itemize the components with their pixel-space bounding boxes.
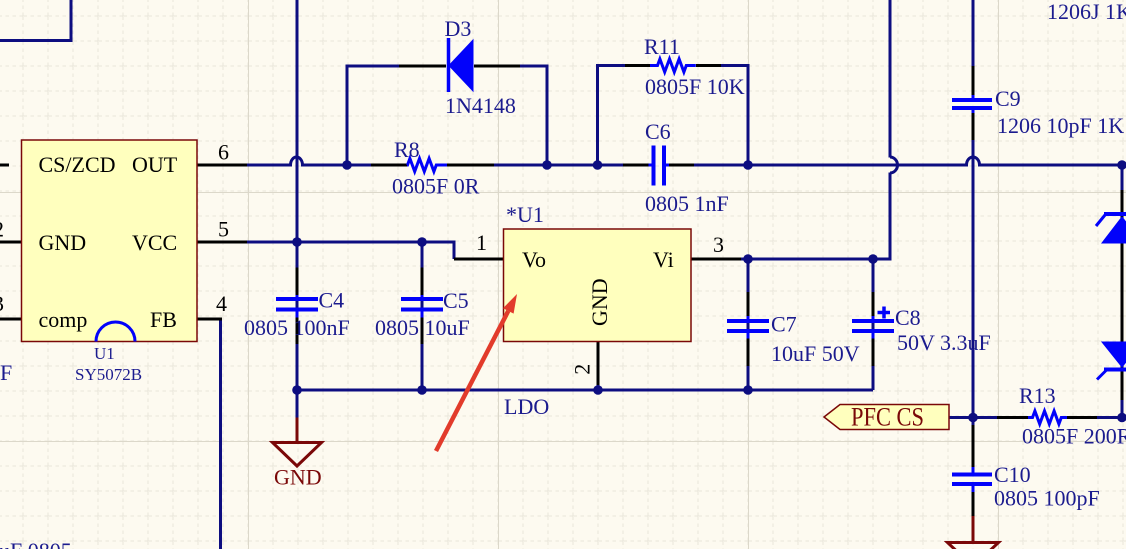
svg-text:6: 6 [218,140,229,165]
svg-text:*U1: *U1 [506,202,544,227]
svg-text:R11: R11 [644,34,680,59]
capacitor C8 plus sign [878,307,891,319]
resistor R8 pins [371,164,494,167]
svg-text:1206J 1K: 1206J 1K [1047,0,1126,24]
svg-text:3: 3 [0,291,4,316]
wire OUT net y=165 (with hops at x=297 and x=973) [247,157,371,165]
capacitor C5 [421,295,424,318]
capacitor C7 [747,316,750,339]
op-amp U1 SY5072B body [22,140,198,342]
svg-text:CS/ZCD: CS/ZCD [39,152,116,177]
capacitor C6 [649,164,670,167]
zener diode lower [1102,342,1126,367]
wire C9/C10 column x=973 [972,0,975,66]
wire Vi net y=259 with vertical riser x=890 (hop over y=165) [741,173,890,260]
regulator U1 LDO pin1 wire [454,258,503,261]
wire VCC net y=242 [247,242,454,259]
junction node dots [342,160,352,170]
svg-text:5: 5 [218,217,229,242]
wire ground rail y=390 [297,389,873,392]
capacitor C4 [296,295,299,318]
capacitor C9 pins [972,66,975,140]
svg-text:GND: GND [39,230,87,255]
port PFC CS banner [824,405,949,430]
svg-text:Vi: Vi [653,247,674,272]
wire top-left corner [0,0,71,41]
wire FB net [219,319,222,549]
wire D3 branch [347,66,399,165]
svg-text:C8: C8 [895,305,921,330]
capacitor C8 [872,316,875,339]
svg-text:comp: comp [39,307,88,332]
svg-text:F: F [0,360,12,385]
capacitor C6 pins [623,164,694,167]
wire pin2 stub [597,383,600,390]
svg-text:10uF 50V: 10uF 50V [771,341,860,366]
wire C5 column x=422 [421,242,424,390]
regulator U1 LDO pin3 wire [691,258,741,261]
regulator U1 LDO body [504,229,692,342]
resistor R13 [1028,411,1067,424]
wire PFC CS net y=417.5 [949,416,997,419]
resistor R8 [407,159,447,172]
svg-text:R8: R8 [394,137,420,162]
IC U1 pin 6 wire [197,164,247,167]
diode D3 [447,38,451,92]
resistor R11 pins [625,64,721,67]
capacitor C10 pins [972,425,975,517]
svg-text:U1: U1 [94,344,115,363]
IC U1 pin stubs left edge [0,164,9,167]
svg-text:C10: C10 [994,462,1031,487]
diode D3 pins [399,65,520,68]
ground symbol bottom (C10) [972,516,975,543]
U1 bottom arc [96,322,135,342]
ground symbol left [296,390,299,418]
svg-text:GND: GND [587,278,612,326]
svg-text:0805 100nF: 0805 100nF [244,315,350,340]
svg-text:1: 1 [476,230,487,255]
IC U1 pin 5 wire [197,241,247,244]
svg-text:2: 2 [0,217,4,242]
svg-text:D3: D3 [445,16,472,41]
svg-text:Vo: Vo [522,247,546,272]
svg-text:C9: C9 [995,86,1021,111]
svg-text:GND: GND [274,465,322,490]
red annotation arrow [436,311,508,451]
svg-text:C7: C7 [771,312,797,337]
svg-text:FB: FB [150,307,177,332]
svg-text:4: 4 [216,291,227,316]
wire C8 column x=873 [872,259,875,390]
svg-text:0805F 200R: 0805F 200R [1022,424,1126,449]
svg-text:3: 3 [713,232,724,257]
svg-text:PFC CS: PFC CS [851,403,924,432]
svg-text:0805F 10K: 0805F 10K [645,74,745,99]
regulator U1 LDO pin2 wire [597,342,600,386]
svg-text:C4: C4 [319,288,345,313]
capacitor C9 [972,95,975,113]
svg-text:1N4148: 1N4148 [445,93,516,118]
resistor R11 [650,59,696,72]
svg-text:0805 1nF: 0805 1nF [645,191,729,216]
svg-text:VCC: VCC [132,230,177,255]
svg-text:C5: C5 [443,288,469,313]
resistor R13 pins [997,416,1097,419]
svg-text:uF 0805: uF 0805 [0,538,72,549]
svg-text:R13: R13 [1019,383,1056,408]
wire vertical column x=297 [296,0,299,390]
wire R11 branch [598,66,626,166]
capacitor C10 [972,467,975,492]
capacitor C5 pins [421,268,424,345]
capacitor C7 pins [747,292,750,366]
zener diode upper [1102,217,1126,243]
capacitor C4 pins [296,268,299,345]
svg-text:OUT: OUT [132,152,178,177]
svg-text:2: 2 [570,364,595,375]
wire zener column x=1122 [1121,165,1124,418]
svg-text:LDO: LDO [504,394,549,419]
IC U1 pin 4 wire [197,318,222,321]
capacitor C8 pins [872,292,875,366]
svg-text:50V 3.3uF: 50V 3.3uF [897,330,991,355]
svg-text:0805 10uF: 0805 10uF [375,315,470,340]
svg-text:1206 10pF 1K: 1206 10pF 1K [997,113,1124,138]
svg-text:SY5072B: SY5072B [75,365,142,384]
wire C7 column x=748 [747,259,750,390]
svg-text:0805F 0R: 0805F 0R [392,174,480,199]
svg-text:C6: C6 [645,119,671,144]
svg-text:0805 100pF: 0805 100pF [994,486,1100,511]
